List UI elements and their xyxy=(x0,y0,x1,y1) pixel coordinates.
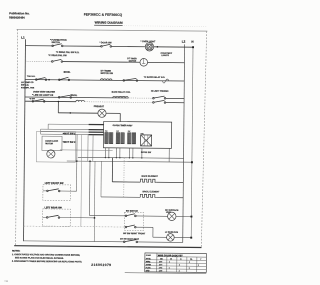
svg-text:INF SW RIGHT REAR: INF SW RIGHT REAR xyxy=(120,238,140,241)
svg-text:SWITCH: SWITCH xyxy=(51,42,60,44)
svg-text:MOTOR: MOTOR xyxy=(45,143,53,145)
svg-text:2: 2 xyxy=(179,270,180,272)
svg-text:6: 6 xyxy=(198,265,199,267)
svg-text:5995426494: 5995426494 xyxy=(9,15,25,19)
svg-text:60 HZ: 60 HZ xyxy=(146,258,151,260)
svg-text:MOT SW 1: MOT SW 1 xyxy=(64,133,76,135)
svg-text:18-6: 18-6 xyxy=(159,261,162,263)
svg-text:N: N xyxy=(191,40,193,44)
svg-text:SEE RATING PLATE FOR ELECTRICA: SEE RATING PLATE FOR ELECTRICAL RATINGS. xyxy=(15,256,64,259)
svg-text:* DOOR SW: * DOOR SW xyxy=(99,42,112,44)
svg-text:TOD N.O.: TOD N.O. xyxy=(27,76,36,78)
svg-text:2: 2 xyxy=(179,264,180,266)
svg-text:*C REAR PNL SW: *C REAR PNL SW xyxy=(48,54,67,57)
svg-text:* OVEN LIGHT: * OVEN LIGHT xyxy=(141,41,157,43)
svg-text:LIGHTS: LIGHTS xyxy=(161,55,169,57)
svg-text:SW N.O.: SW N.O. xyxy=(21,85,29,87)
svg-text:PLUG: PLUG xyxy=(146,267,151,269)
svg-text:WIRING DIAGRAM: WIRING DIAGRAM xyxy=(95,21,123,25)
svg-text:*C REAR PNL SW N.O.: *C REAR PNL SW N.O. xyxy=(56,51,80,54)
svg-text:NOTES:: NOTES: xyxy=(12,250,21,252)
svg-text:REL: REL xyxy=(141,133,144,135)
svg-text:BL: BL xyxy=(190,259,192,261)
svg-text:1: 1 xyxy=(169,261,170,263)
svg-text:14-2: 14-2 xyxy=(159,266,162,269)
svg-text:16-4: 16-4 xyxy=(159,263,162,266)
svg-text:MOTOR SW: MOTOR SW xyxy=(101,73,114,75)
svg-text:PREHEAT: PREHEAT xyxy=(94,105,105,108)
svg-text:UNIT: UNIT xyxy=(166,212,172,214)
svg-text:12-8: 12-8 xyxy=(159,270,162,272)
svg-text:TC BAKE RELAY N.O.: TC BAKE RELAY N.O. xyxy=(144,76,166,79)
svg-text:CLOCK TIMER ASSY: CLOCK TIMER ASSY xyxy=(113,124,134,127)
svg-text:OVEN VENT HEATER: OVEN VENT HEATER xyxy=(33,90,56,93)
svg-text:L2: L2 xyxy=(182,39,186,43)
svg-text:FEF366CC & FEF366CQ: FEF366CC & FEF366CQ xyxy=(84,13,123,17)
svg-text:• ••: • •• xyxy=(5,280,8,283)
svg-text:BROIL: BROIL xyxy=(70,95,77,97)
svg-text:4: 4 xyxy=(189,261,190,264)
svg-text:HI LIMIT THERMO: HI LIMIT THERMO xyxy=(151,91,169,93)
svg-text:L1: L1 xyxy=(21,36,25,40)
svg-text:MOTOR: MOTOR xyxy=(129,61,137,63)
svg-text:MOT SW 2: MOT SW 2 xyxy=(64,142,76,144)
svg-text:CONN: CONN xyxy=(146,264,152,266)
svg-text:DOOR SW: DOOR SW xyxy=(141,152,151,154)
svg-text:RTS/BPL HTR: RTS/BPL HTR xyxy=(21,87,35,89)
svg-text:1: 1 xyxy=(169,267,170,269)
svg-text:3: 3 xyxy=(189,268,190,270)
svg-text:BROIL: BROIL xyxy=(64,72,71,74)
svg-text:* LINE ON LIGHT CE: * LINE ON LIGHT CE xyxy=(32,95,54,97)
svg-text:*B SW: *B SW xyxy=(29,98,35,100)
svg-text:BROIL ELEMENT: BROIL ELEMENT xyxy=(143,191,161,193)
svg-text:BAKE ELEMENT: BAKE ELEMENT xyxy=(142,175,159,178)
svg-text:216002079: 216002079 xyxy=(91,263,111,267)
svg-text:LF SURFACE: LF SURFACE xyxy=(165,231,179,234)
svg-text:INF SW RIGHT FRONT: INF SW RIGHT FRONT xyxy=(123,233,146,235)
svg-text:BAKE RELAY COIL: BAKE RELAY COIL xyxy=(112,91,132,94)
